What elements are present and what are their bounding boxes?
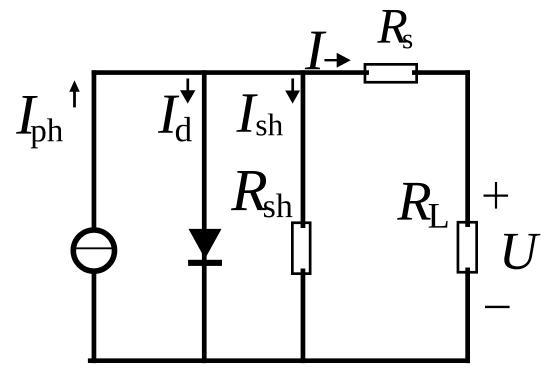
label Id: subscript d: [176, 117, 192, 142]
arrow Iph current direction (up): [69, 80, 79, 107]
resistor Rsh box: [292, 223, 310, 274]
label Iph: I: [16, 96, 38, 134]
arrow Id current direction (down): [180, 79, 195, 104]
label Rs: subscript s: [403, 35, 412, 49]
label Id: I: [158, 96, 179, 133]
wire left upper: [92, 70, 97, 229]
diode D: [188, 229, 222, 266]
label Ish: subscript sh: [257, 113, 283, 135]
wire diode branch: [202, 70, 207, 363]
label RL: subscript L: [429, 204, 448, 228]
label U (output voltage): [504, 234, 541, 269]
wire shunt branch lower: [301, 269, 306, 364]
label Rsh: subscript sh: [264, 194, 292, 218]
label - (voltage polarity): [485, 306, 510, 308]
resistor Rs box: [365, 64, 417, 82]
wire right lower: [465, 268, 470, 364]
wire top right segment: [412, 70, 470, 75]
label Iph: subscript ph: [31, 118, 63, 148]
label RL: R: [397, 183, 431, 220]
label Ish: I: [236, 94, 257, 131]
wire top left segment: [92, 70, 369, 75]
label + (voltage polarity): [484, 182, 509, 209]
arrow I current direction (right): [324, 53, 350, 68]
resistor RL box: [458, 222, 477, 272]
label I (output current): [305, 32, 327, 70]
arrow Ish current direction (down): [285, 79, 300, 104]
label Rs: R: [377, 10, 407, 43]
wire right upper: [465, 70, 470, 227]
wire shunt branch upper: [301, 70, 306, 228]
wire bottom: [88, 358, 470, 363]
label Rsh: R: [231, 171, 267, 210]
current source Iph symbol: [73, 230, 114, 271]
wire left lower: [92, 272, 97, 363]
